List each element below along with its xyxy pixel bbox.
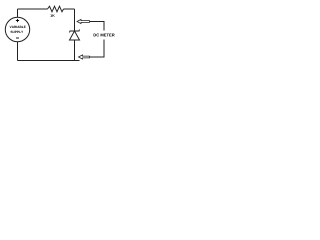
wire: resistor to top-right corner <box>64 8 75 10</box>
wire: meter + lead <box>90 22 105 31</box>
value label 1K <box>50 14 54 16</box>
wire: cathode drop from top rail to zener <box>74 9 76 31</box>
wire: meter - lead <box>90 40 105 58</box>
dc meter M1 label <box>94 34 115 37</box>
wire: bottom rail <box>18 60 80 62</box>
probe arrow: meter + lead pointing at zener cathode node <box>77 19 90 23</box>
wire: bottom rail up to supply - terminal <box>17 42 19 61</box>
probe arrow: meter - lead pointing at zener anode node <box>79 55 90 59</box>
wire: supply + terminal up to top rail <box>17 9 19 17</box>
wire: zener anode down to bottom rail <box>74 40 76 61</box>
zener diode D1 <box>70 30 80 41</box>
variable supply source B1 <box>5 17 29 41</box>
resistor R1 <box>48 6 64 12</box>
wire: top rail to resistor <box>18 8 48 10</box>
